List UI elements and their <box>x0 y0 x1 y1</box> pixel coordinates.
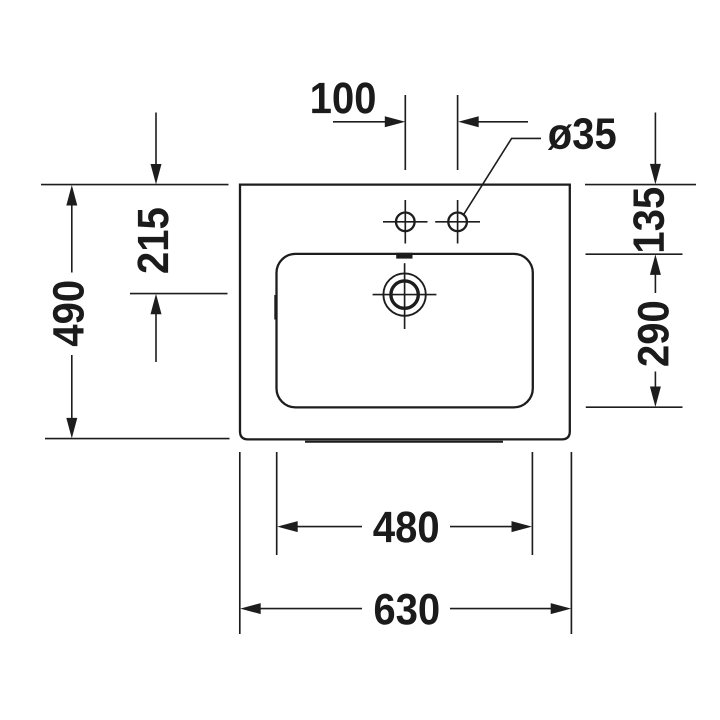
label dia 35 <box>548 118 616 150</box>
right extension line bowl bottom <box>586 406 683 408</box>
dim 215 down arrow <box>155 113 157 165</box>
dim 630 left extension line <box>239 452 241 634</box>
dim 630 right arrow <box>450 608 551 610</box>
overflow slot <box>396 253 412 259</box>
dim 480 left arrow <box>277 521 298 532</box>
dim 490 down arrow <box>71 355 73 419</box>
dim 480 right extension line <box>531 452 533 555</box>
left extension line top edge <box>41 184 229 186</box>
tap hole 2 <box>448 213 467 232</box>
label 490 <box>53 282 84 347</box>
bowl left edge tick <box>274 295 276 320</box>
dim 290 up arrow <box>654 274 656 293</box>
left extension line bottom edge <box>45 438 230 440</box>
dim 630 left arrow <box>240 603 261 614</box>
leader line o35 <box>463 138 541 215</box>
label 100 <box>312 82 375 113</box>
basin foot line <box>305 441 503 443</box>
dim 100 extension line hole2 <box>457 95 459 170</box>
washbasin outer outline <box>240 185 570 440</box>
dim 100 extension line center <box>404 95 406 170</box>
drain inner circle <box>391 281 418 308</box>
dim 630 right extension line <box>570 452 572 634</box>
label 135 <box>633 188 664 251</box>
label 290 <box>638 302 669 366</box>
dim 480 left extension line <box>276 452 278 555</box>
dim 135 down arrow <box>654 113 656 167</box>
right extension line top edge <box>585 184 696 186</box>
inner bowl outline <box>277 254 533 408</box>
dim 480 right arrow <box>450 526 512 528</box>
tap hole 1 <box>396 213 415 232</box>
drain outer circle <box>383 273 425 315</box>
dim 490 up arrow <box>66 185 77 206</box>
dim 100 right arrow <box>478 121 528 123</box>
right extension line bowl top <box>586 253 683 255</box>
label 215 <box>137 208 168 272</box>
dim 100 left arrow <box>333 121 387 123</box>
label 480 <box>373 511 438 542</box>
dim 290 down arrow <box>654 372 656 389</box>
drain crosshair <box>373 294 437 296</box>
tap hole 1 crosshair <box>383 221 428 223</box>
dim 215 up arrow <box>151 294 162 315</box>
label 630 <box>375 594 439 625</box>
tap hole 2 crosshair <box>435 221 480 223</box>
left extension line drain center <box>130 293 228 295</box>
